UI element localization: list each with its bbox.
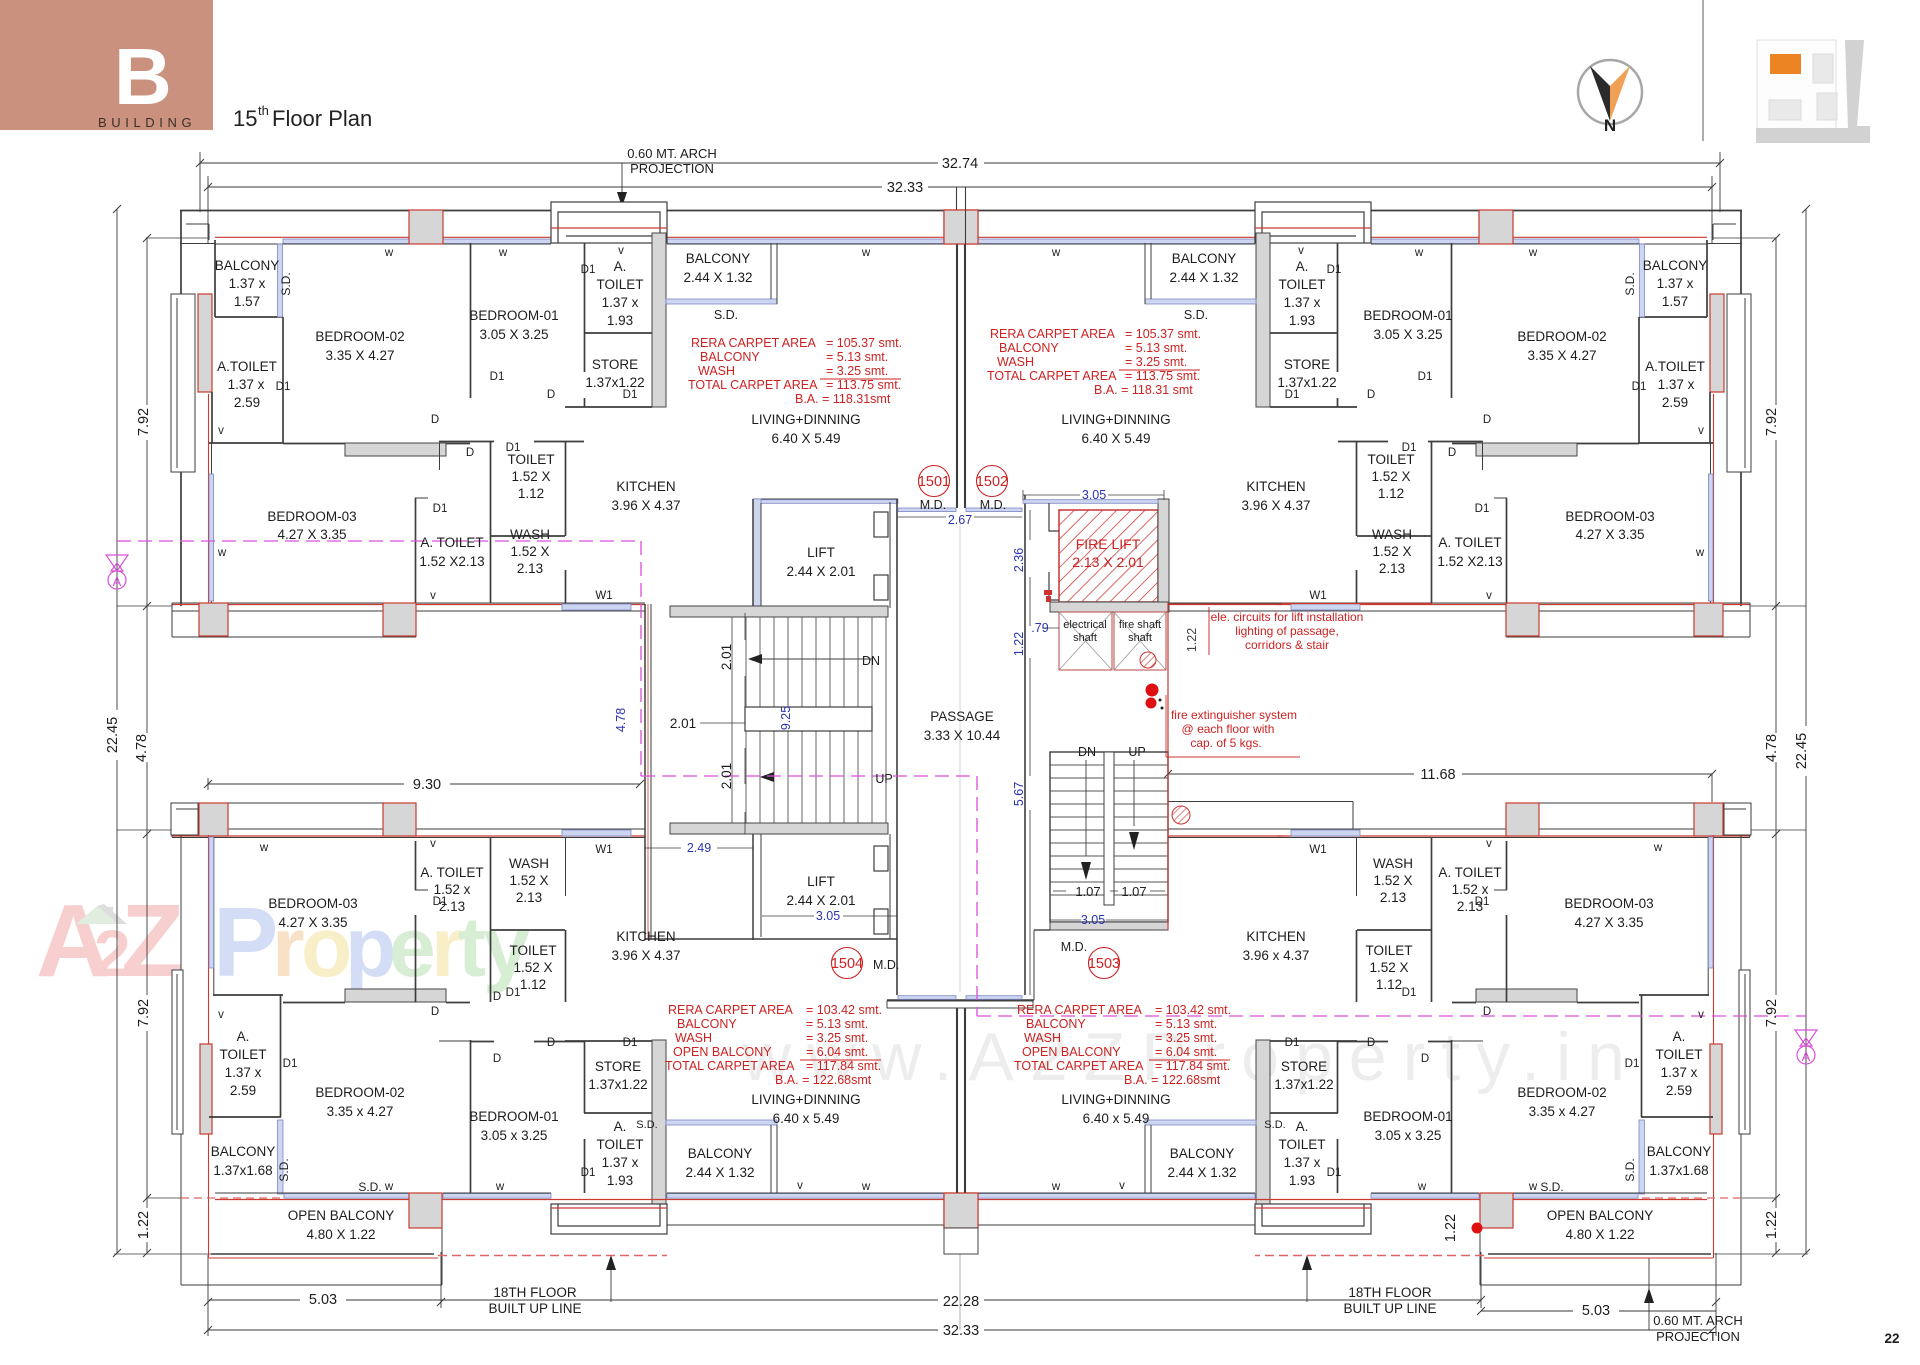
stairwell west wall (644, 604, 646, 940)
ledge box top-left (171, 803, 198, 835)
svg-text:w: w (1417, 1181, 1427, 1193)
svg-text:= 3.25 smt.: = 3.25 smt. (826, 364, 888, 378)
svg-text:1.52 X2.13: 1.52 X2.13 (1437, 554, 1502, 569)
svg-text:D1: D1 (1402, 442, 1417, 454)
svg-text:RERA CARPET AREA: RERA CARPET AREA (1017, 1003, 1142, 1017)
svg-text:cap. of 5 kgs.: cap. of 5 kgs. (1190, 736, 1261, 750)
svg-text:BEDROOM-02: BEDROOM-02 (315, 1085, 404, 1100)
svg-text:UP: UP (875, 772, 892, 786)
svg-text:BEDROOM-03: BEDROOM-03 (268, 896, 357, 911)
section marker A left (106, 555, 128, 589)
svg-text:PROJECTION: PROJECTION (1656, 1329, 1740, 1344)
svg-text:22.45: 22.45 (1794, 733, 1810, 769)
svg-text:1.93: 1.93 (1289, 313, 1315, 328)
bottom 32.33 (208, 1329, 938, 1331)
svg-text:A.: A. (614, 1119, 627, 1134)
right dim lines (1805, 209, 1807, 726)
wash/toilet cluster (490, 837, 492, 1002)
svg-text:D1: D1 (506, 442, 521, 454)
svg-text:OPEN BALCONY: OPEN BALCONY (288, 1208, 395, 1223)
svg-text:1.37 x: 1.37 x (1661, 1065, 1698, 1080)
svg-text:5.03: 5.03 (309, 1292, 337, 1308)
svg-text:A.: A. (237, 1029, 250, 1044)
svg-text:1.52 X: 1.52 X (513, 960, 552, 975)
svg-text:1.52 X: 1.52 X (1372, 544, 1411, 559)
svg-text:TOILET: TOILET (1278, 277, 1325, 292)
svg-text:3.96 X 4.37: 3.96 X 4.37 (611, 948, 680, 963)
svg-text:1.22: 1.22 (1185, 628, 1199, 652)
svg-text:= 103.42 smt.: = 103.42 smt. (1155, 1003, 1231, 1017)
9.30 dim (208, 783, 404, 785)
svg-text:3.35 x 4.27: 3.35 x 4.27 (327, 1104, 394, 1119)
svg-text:BALCONY: BALCONY (688, 1146, 753, 1161)
svg-text:D1: D1 (433, 503, 448, 515)
passage east wall (1024, 495, 1026, 995)
svg-text:2.44 X 1.32: 2.44 X 1.32 (1169, 270, 1238, 285)
svg-text:3.05: 3.05 (1082, 488, 1106, 502)
svg-text:S.D.: S.D. (1623, 272, 1637, 295)
shafts (1059, 612, 1166, 670)
svg-text:TOTAL CARPET AREA: TOTAL CARPET AREA (688, 378, 818, 392)
svg-text:= 113.75 smt.: = 113.75 smt. (1125, 369, 1200, 383)
svg-text:1.52 x: 1.52 x (434, 882, 471, 897)
svg-text:= 117.84 smt.: = 117.84 smt. (806, 1059, 881, 1073)
svg-text:v: v (218, 1009, 224, 1021)
svg-text:2.59: 2.59 (1662, 395, 1688, 410)
center column top (944, 210, 978, 244)
bottom dimension chain 5.03 / 22.28 / 5.03 (209, 1299, 300, 1301)
svg-text:BALCONY: BALCONY (999, 341, 1059, 355)
svg-text:RERA CARPET AREA: RERA CARPET AREA (990, 327, 1115, 341)
svg-text:w: w (861, 247, 871, 259)
svg-text:1.52 X2.13: 1.52 X2.13 (419, 554, 484, 569)
svg-text:1504: 1504 (831, 956, 863, 972)
svg-text:3.05 x 3.25: 3.05 x 3.25 (1375, 1128, 1442, 1143)
svg-text:1.37 x: 1.37 x (602, 1155, 639, 1170)
left wall below a.toilet with w window (211, 443, 213, 606)
svg-text:RERA CARPET AREA: RERA CARPET AREA (668, 1003, 793, 1017)
compass (1578, 60, 1642, 124)
M.D. doors top (898, 508, 956, 512)
svg-text:7.92: 7.92 (1764, 999, 1780, 1027)
svg-text:32.74: 32.74 (942, 156, 978, 172)
svg-text:1.52 x: 1.52 x (1452, 882, 1489, 897)
svg-text:D1: D1 (276, 381, 291, 393)
svg-text:1.37x1.68: 1.37x1.68 (1649, 1163, 1708, 1178)
svg-text:2.13: 2.13 (1380, 890, 1406, 905)
svg-text:1.37 x: 1.37 x (602, 295, 639, 310)
svg-text:D: D (1367, 1037, 1375, 1049)
svg-text:= 5.13 smt.: = 5.13 smt. (826, 350, 888, 364)
svg-text:D1: D1 (283, 1058, 298, 1070)
svg-text:BEDROOM-02: BEDROOM-02 (1517, 1085, 1606, 1100)
svg-text:BALCONY: BALCONY (215, 258, 280, 273)
lift-1 (top) (753, 498, 898, 500)
svg-text:M.D.: M.D. (873, 958, 899, 972)
svg-text:6.40 x 5.49: 6.40 x 5.49 (1083, 1111, 1150, 1126)
arch projection box bottom (551, 1204, 667, 1234)
svg-text:4.80 X 1.22: 4.80 X 1.22 (1565, 1227, 1634, 1242)
svg-text:BALCONY: BALCONY (677, 1017, 737, 1031)
svg-text:w: w (1528, 247, 1538, 259)
small red glyph left of fire lift (1044, 590, 1052, 595)
svg-text:5.67: 5.67 (1012, 782, 1026, 806)
svg-text:TOTAL CARPET AREA: TOTAL CARPET AREA (987, 369, 1117, 383)
section marker A right (1795, 1030, 1817, 1064)
bottom-right arch arrow (1644, 1288, 1654, 1303)
svg-text:0.60 MT. ARCH: 0.60 MT. ARCH (627, 146, 717, 161)
svg-text:BALCONY: BALCONY (1026, 1017, 1086, 1031)
svg-text:.79: .79 (1031, 621, 1048, 635)
svg-text:electrical: electrical (1063, 619, 1106, 631)
built-up-line arrows (610, 1262, 612, 1302)
svg-text:D1: D1 (1625, 1058, 1640, 1070)
svg-text:D: D (547, 1037, 555, 1049)
svg-text:w: w (495, 1181, 505, 1193)
right stair (1050, 752, 1168, 922)
svg-text:2.67: 2.67 (948, 513, 972, 527)
svg-text:15: 15 (233, 106, 257, 131)
svg-text:= 3.25 smt.: = 3.25 smt. (1125, 355, 1187, 369)
svg-text:w: w (1051, 1181, 1061, 1193)
svg-text:A: A (113, 574, 122, 589)
unit 1501 RERA block (688, 336, 902, 406)
svg-text:2.13: 2.13 (1379, 561, 1405, 576)
svg-text:TOILET: TOILET (509, 943, 556, 958)
duct left (172, 970, 442, 1285)
svg-text:TOILET: TOILET (507, 452, 554, 467)
svg-text:PROJECTION: PROJECTION (630, 161, 714, 176)
svg-text:D: D (547, 389, 555, 401)
svg-text:1.57: 1.57 (1662, 294, 1688, 309)
svg-text:BUILT UP LINE: BUILT UP LINE (1343, 1301, 1436, 1316)
svg-text:w: w (861, 1181, 871, 1193)
svg-text:A.: A. (1296, 1119, 1309, 1134)
svg-text:2.13 X 2.01: 2.13 X 2.01 (1072, 554, 1144, 570)
svg-text:= 5.13 smt.: = 5.13 smt. (1155, 1017, 1217, 1031)
balcony 2.44x1.32 (666, 299, 777, 304)
svg-text:D: D (431, 414, 439, 426)
svg-text:3.33 X 10.44: 3.33 X 10.44 (924, 728, 1001, 743)
stairs left (670, 606, 888, 617)
svg-text:A.TOILET: A.TOILET (1645, 359, 1705, 374)
svg-text:4.27 X 3.35: 4.27 X 3.35 (277, 527, 346, 542)
top band wall (top of bottom apartment) (172, 828, 645, 830)
svg-text:shaft: shaft (1073, 632, 1097, 644)
svg-text:5.03: 5.03 (1582, 1303, 1610, 1319)
a.toilet / store divider (584, 332, 652, 334)
svg-text:1.22: 1.22 (136, 1211, 152, 1239)
bottom M.D. bar (887, 999, 1034, 1001)
svg-text:1502: 1502 (976, 474, 1008, 490)
svg-text:18TH FLOOR: 18TH FLOOR (493, 1285, 577, 1300)
svg-text:WASH: WASH (698, 364, 735, 378)
svg-text:FIRE LIFT: FIRE LIFT (1076, 536, 1141, 552)
svg-text:w: w (1528, 1181, 1538, 1193)
balcony 1.37x1.57 (214, 240, 216, 317)
svg-text:9.25: 9.25 (779, 706, 793, 730)
site logo (1756, 40, 1870, 143)
svg-text:1.12: 1.12 (1376, 977, 1402, 992)
building badge (0, 0, 213, 130)
svg-text:M.D.: M.D. (920, 498, 946, 512)
svg-text:Floor Plan: Floor Plan (272, 106, 372, 131)
svg-text:B: B (114, 32, 172, 121)
svg-text:t: t (458, 900, 486, 994)
svg-text:= 6.04 smt.: = 6.04 smt. (1155, 1045, 1217, 1059)
center column bottom (944, 1193, 978, 1228)
svg-text:BALCONY: BALCONY (211, 1144, 276, 1159)
svg-text:= 3.25 smt.: = 3.25 smt. (806, 1031, 868, 1045)
svg-text:A.: A. (614, 259, 627, 274)
svg-text:3.96 x 4.37: 3.96 x 4.37 (1243, 948, 1310, 963)
svg-text:M.D.: M.D. (980, 498, 1006, 512)
mid band wall (bottom of top apartment) (172, 602, 645, 604)
svg-text:S.D.: S.D. (1264, 1119, 1285, 1131)
svg-text:PASSAGE: PASSAGE (930, 709, 994, 724)
svg-text:B.A. = 118.31smt: B.A. = 118.31smt (795, 392, 891, 406)
svg-text:WASH: WASH (509, 856, 549, 871)
svg-text:KITCHEN: KITCHEN (616, 929, 675, 944)
svg-text:1.07: 1.07 (1075, 884, 1100, 899)
svg-text:32.33: 32.33 (943, 1323, 979, 1339)
svg-text:D1: D1 (433, 896, 448, 908)
svg-text:S.D.: S.D. (1184, 308, 1208, 322)
left wall with w window (213, 837, 215, 995)
svg-text:1.37x1.22: 1.37x1.22 (588, 1077, 647, 1092)
svg-text:= 5.13 smt.: = 5.13 smt. (806, 1017, 868, 1031)
svg-text:2.01: 2.01 (719, 763, 734, 789)
svg-text:v: v (618, 245, 624, 257)
fire extinguisher dots (1146, 684, 1159, 697)
svg-text:OPEN BALCONY: OPEN BALCONY (1547, 1208, 1654, 1223)
svg-text:v: v (797, 1180, 803, 1192)
svg-text:TOILET: TOILET (1365, 943, 1412, 958)
svg-text:w: w (217, 547, 227, 559)
svg-text:D1: D1 (1475, 896, 1490, 908)
svg-text:A. TOILET: A. TOILET (420, 535, 483, 550)
svg-text:w: w (1653, 842, 1663, 854)
svg-text:22: 22 (1884, 1331, 1899, 1346)
svg-text:lighting of passage,: lighting of passage, (1235, 624, 1338, 638)
svg-text:2.44 X 1.32: 2.44 X 1.32 (1167, 1165, 1236, 1180)
svg-text:2.44 X 2.01: 2.44 X 2.01 (786, 564, 855, 579)
svg-text:TOILET: TOILET (1367, 452, 1414, 467)
svg-text:shaft: shaft (1128, 632, 1152, 644)
svg-text:1.12: 1.12 (1378, 486, 1404, 501)
11.68 dim (right) (1168, 773, 1414, 775)
svg-text:= 117.84 smt.: = 117.84 smt. (1155, 1059, 1230, 1073)
svg-text:1.52 X: 1.52 X (1369, 960, 1408, 975)
svg-text:1.37x1.22: 1.37x1.22 (1274, 1077, 1333, 1092)
svg-text:2.13: 2.13 (517, 561, 543, 576)
svg-text:7.92: 7.92 (136, 999, 152, 1027)
svg-text:BALCONY: BALCONY (700, 350, 760, 364)
svg-text:v: v (1119, 1180, 1125, 1192)
svg-text:STORE: STORE (592, 357, 638, 372)
svg-text:TOILET: TOILET (596, 277, 643, 292)
svg-text:S.D.: S.D. (277, 1158, 291, 1181)
svg-text:BALCONY: BALCONY (1172, 251, 1237, 266)
top-left gray column (409, 210, 443, 244)
svg-text:2.59: 2.59 (230, 1083, 256, 1098)
svg-text:1.37 x: 1.37 x (1284, 1155, 1321, 1170)
top apartment wall: red line + blue band (215, 236, 944, 238)
svg-text:TOTAL CARPET AREA: TOTAL CARPET AREA (1014, 1059, 1144, 1073)
svg-text:D1: D1 (581, 264, 596, 276)
unit 1503 RERA block (1014, 1003, 1231, 1087)
balcony 2.44x1.32 (666, 1120, 777, 1125)
svg-text:1.52 X: 1.52 X (510, 544, 549, 559)
svg-text:w: w (1051, 247, 1061, 259)
svg-text:w: w (1414, 247, 1424, 259)
svg-text:= 113.75 smt.: = 113.75 smt. (826, 378, 901, 392)
svg-text:D1: D1 (490, 371, 505, 383)
svg-text:DN: DN (862, 654, 880, 668)
svg-text:1.93: 1.93 (607, 313, 633, 328)
svg-text:1.37 x: 1.37 x (1284, 295, 1321, 310)
svg-text:WASH: WASH (1373, 856, 1413, 871)
svg-text:6.40 x 5.49: 6.40 x 5.49 (773, 1111, 840, 1126)
svg-text:v: v (218, 425, 224, 437)
svg-text:D1: D1 (1327, 264, 1342, 276)
gray strip beside store (652, 233, 666, 407)
svg-text:9.30: 9.30 (413, 777, 441, 793)
top extension verticals (199, 152, 201, 212)
svg-text:BEDROOM-01: BEDROOM-01 (1363, 1109, 1452, 1124)
svg-text:A.: A. (1673, 1029, 1686, 1044)
svg-text:LIVING+DINNING: LIVING+DINNING (1061, 1092, 1170, 1107)
svg-text:TOILET: TOILET (219, 1047, 266, 1062)
svg-text:3.05 X 3.25: 3.05 X 3.25 (1373, 327, 1442, 342)
svg-text:KITCHEN: KITCHEN (616, 479, 675, 494)
svg-text:D: D (493, 1053, 501, 1065)
svg-text:4.27 X 3.35: 4.27 X 3.35 (278, 915, 347, 930)
2.01 dim vertical left of stairs (700, 613, 745, 834)
svg-text:7.92: 7.92 (136, 408, 152, 436)
svg-text:3.05 x 3.25: 3.05 x 3.25 (481, 1128, 548, 1143)
svg-text:OPEN BALCONY: OPEN BALCONY (1022, 1045, 1121, 1059)
svg-text:3.05: 3.05 (1081, 913, 1105, 927)
svg-text:3.35 x 4.27: 3.35 x 4.27 (1529, 1104, 1596, 1119)
svg-text:D: D (466, 447, 474, 459)
svg-text:v: v (1298, 245, 1304, 257)
svg-text:3.05: 3.05 (816, 909, 840, 923)
svg-text:3.96 X 4.37: 3.96 X 4.37 (611, 498, 680, 513)
svg-text:BEDROOM-01: BEDROOM-01 (1363, 308, 1452, 323)
svg-text:B.A. = 118.31 smt: B.A. = 118.31 smt (1094, 383, 1193, 397)
svg-text:TOTAL CARPET AREA: TOTAL CARPET AREA (665, 1059, 795, 1073)
svg-text:LIVING+DINNING: LIVING+DINNING (751, 1092, 860, 1107)
svg-text:18TH FLOOR: 18TH FLOOR (1348, 1285, 1432, 1300)
svg-text:@ each floor with: @ each floor with (1182, 722, 1275, 736)
svg-text:4.78: 4.78 (134, 734, 150, 762)
svg-text:RERA CARPET AREA: RERA CARPET AREA (691, 336, 816, 350)
bedroom-02/01 divider (470, 1040, 472, 1193)
svg-text:1501: 1501 (918, 474, 950, 490)
svg-text:2.59: 2.59 (234, 395, 260, 410)
party wall center (956, 187, 958, 508)
svg-text:KITCHEN: KITCHEN (1246, 479, 1305, 494)
svg-text:WASH: WASH (510, 527, 550, 542)
toilet / wash cluster (490, 441, 492, 603)
bedroom-02 walls (470, 243, 472, 398)
DN arrow left stair (758, 658, 872, 660)
svg-text:e: e (389, 900, 436, 994)
svg-text:WASH: WASH (997, 355, 1034, 369)
svg-text:2.49: 2.49 (687, 841, 711, 855)
svg-text:BALCONY: BALCONY (1643, 258, 1708, 273)
svg-text:1.93: 1.93 (607, 1173, 633, 1188)
store / a.toilet right cluster (584, 1041, 586, 1113)
svg-text:W1: W1 (595, 844, 612, 856)
svg-text:1.37 x: 1.37 x (1658, 377, 1695, 392)
svg-text:1.12: 1.12 (518, 486, 544, 501)
svg-text:D1: D1 (1418, 371, 1433, 383)
bottom wall: blue band + red line (215, 1199, 944, 1201)
svg-text:BALCONY: BALCONY (686, 251, 751, 266)
svg-text:3.35 X 4.27: 3.35 X 4.27 (325, 348, 394, 363)
unit number circles (831, 466, 1120, 979)
bedroom-01 / a.toilet divider (584, 243, 586, 372)
svg-text:WASH: WASH (1024, 1031, 1061, 1045)
svg-text:4.27 X 3.35: 4.27 X 3.35 (1575, 527, 1644, 542)
svg-text:1.93: 1.93 (1289, 1173, 1315, 1188)
svg-text:D: D (1483, 414, 1491, 426)
svg-text:LIVING+DINNING: LIVING+DINNING (751, 412, 860, 427)
svg-text:TOILET: TOILET (1655, 1047, 1702, 1062)
svg-text:2.01: 2.01 (719, 644, 734, 670)
A.toilet 1.37x2.59 (198, 294, 212, 392)
svg-text:corridors & stair: corridors & stair (1245, 638, 1329, 652)
svg-text:1.52 X: 1.52 X (509, 873, 548, 888)
svg-text:D1: D1 (581, 1167, 596, 1179)
svg-text:S.D.: S.D. (636, 1119, 657, 1131)
svg-text:D1: D1 (623, 389, 638, 401)
svg-text:D1: D1 (1475, 503, 1490, 515)
svg-text:1.12: 1.12 (520, 977, 546, 992)
a.toilet 1.52 left wall (415, 498, 417, 603)
svg-text:11.68: 11.68 (1420, 767, 1455, 783)
arch projection arrow (top) (621, 163, 623, 198)
balcony 1.37x1.68 (278, 1120, 284, 1194)
svg-text:v: v (430, 590, 436, 602)
svg-text:BUILDING: BUILDING (98, 115, 196, 130)
svg-text:STORE: STORE (1281, 1059, 1327, 1074)
lift-2 (bottom) (752, 834, 754, 940)
bedroom-03 bottom wall + lintel (345, 989, 446, 1002)
svg-text:1.52 X: 1.52 X (511, 469, 550, 484)
svg-text:BEDROOM-01: BEDROOM-01 (469, 1109, 558, 1124)
svg-text:4.27 X 3.35: 4.27 X 3.35 (1574, 915, 1643, 930)
svg-text:th: th (258, 103, 269, 118)
unit 1502 RERA block (987, 327, 1201, 397)
svg-text:v: v (1486, 838, 1492, 850)
little house (76, 906, 118, 924)
svg-text:2.01: 2.01 (670, 716, 696, 731)
bedroom-03 right wall upper jog (439, 443, 441, 470)
svg-text:W1: W1 (595, 590, 612, 602)
svg-text:A. TOILET: A. TOILET (1438, 865, 1501, 880)
svg-text:22.45: 22.45 (105, 717, 121, 753)
svg-text:BUILT UP LINE: BUILT UP LINE (488, 1301, 581, 1316)
svg-text:w: w (498, 247, 508, 259)
svg-text:D: D (1448, 447, 1456, 459)
svg-text:S.D.: S.D. (1623, 1158, 1637, 1181)
svg-text:4.80 X 1.22: 4.80 X 1.22 (306, 1227, 375, 1242)
top 32.33 line (208, 186, 882, 188)
svg-text:1.22: 1.22 (1764, 1211, 1780, 1239)
